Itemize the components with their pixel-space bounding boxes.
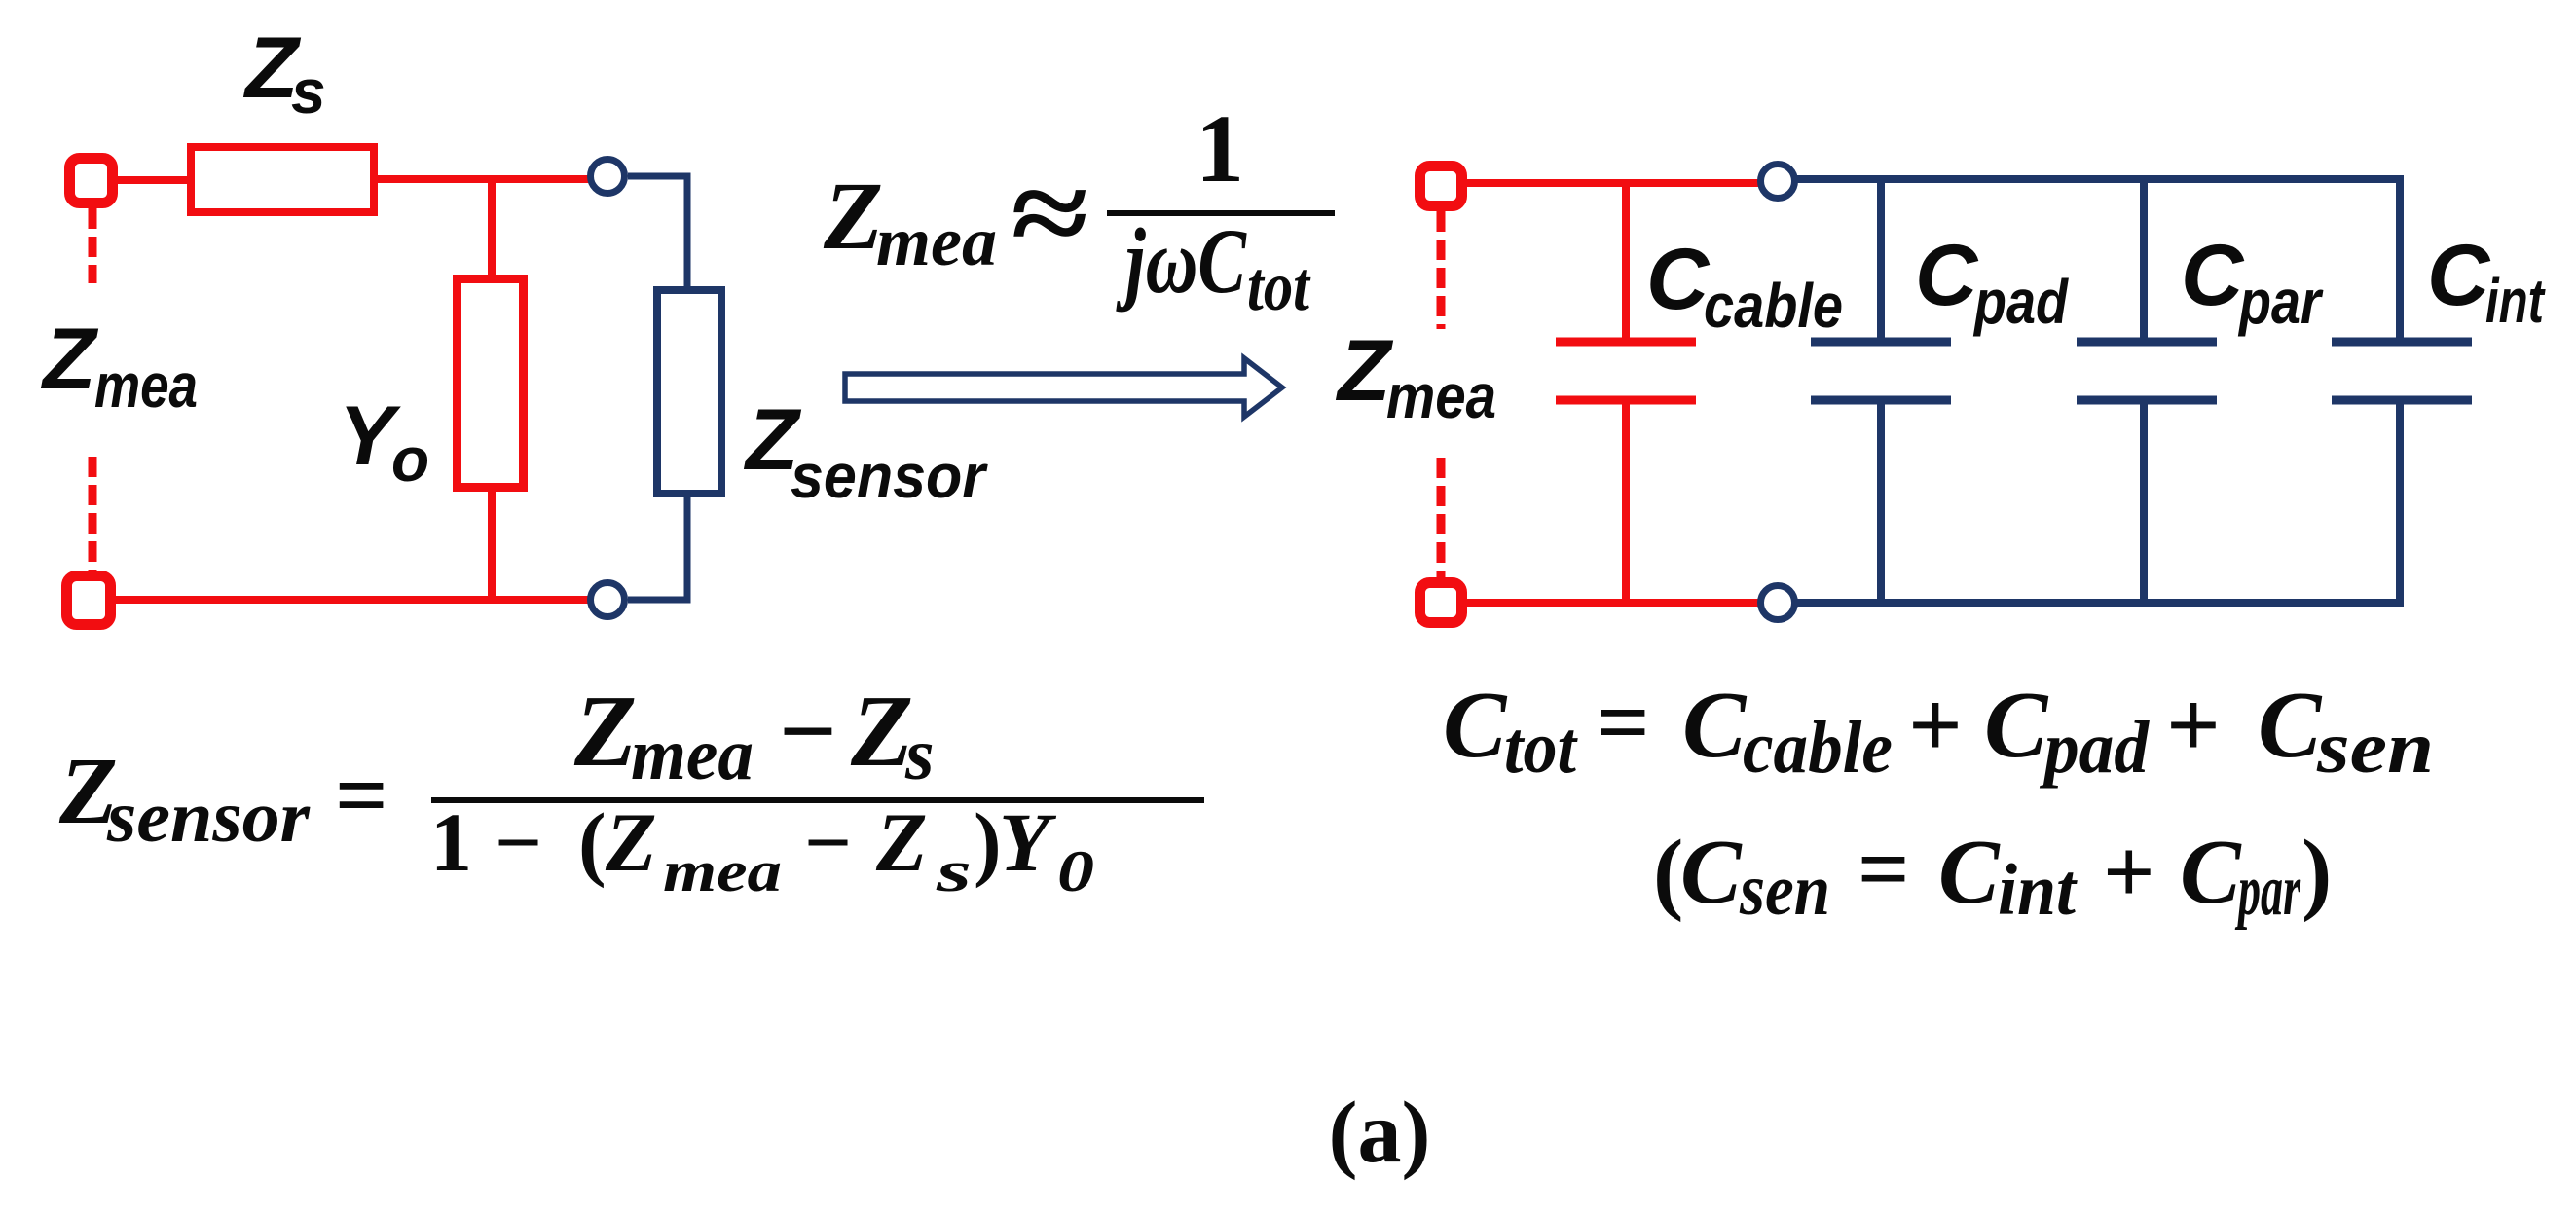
capacitor Ccable plates: [1556, 342, 1696, 400]
svg-text:≈: ≈: [1009, 148, 1086, 279]
dashed lead upper (Zmea port): [89, 208, 97, 283]
svg-text:−: −: [804, 795, 852, 889]
svg-text:(: (: [1653, 822, 1683, 923]
dashed lead lower right: [1437, 458, 1446, 577]
terminal square top-left: [70, 159, 113, 203]
svg-text:): ): [974, 795, 1002, 889]
svg-text:sensor: sensor: [106, 777, 311, 858]
svg-text:Z: Z: [850, 674, 913, 788]
svg-text:pad: pad: [2039, 707, 2150, 789]
svg-text:s: s: [291, 56, 326, 127]
svg-text:Z: Z: [875, 795, 928, 889]
svg-text:0: 0: [1057, 839, 1094, 903]
svg-text:par: par: [2237, 267, 2323, 337]
svg-text:C: C: [1680, 822, 1743, 923]
branch wire Cpad bottom: [1877, 400, 1885, 603]
svg-text:Z: Z: [573, 674, 637, 788]
label Cpar: [2181, 226, 2324, 337]
svg-text:sensor: sensor: [791, 441, 988, 511]
svg-text:C: C: [1682, 673, 1748, 778]
branch wire Cpad top: [1877, 179, 1885, 342]
wire Zsensor bottom to node B: [628, 494, 687, 600]
svg-text:tot: tot: [1247, 247, 1311, 325]
arrow (transformation): [845, 358, 1282, 417]
svg-text:=: =: [335, 743, 388, 847]
label Zsensor: [743, 390, 988, 511]
svg-text:sen: sen: [2316, 707, 2434, 789]
svg-text:jωC: jωC: [1116, 209, 1247, 313]
terminal square top-right circuit: [1420, 166, 1462, 206]
node C top circle right: [1761, 165, 1795, 199]
wire Yo to bottom wire: [488, 485, 496, 600]
svg-text:mea: mea: [876, 203, 997, 280]
label Zs: [242, 18, 326, 127]
resistor Yo: [458, 279, 524, 488]
svg-text:C: C: [2180, 822, 2242, 923]
svg-text:par: par: [2234, 850, 2300, 931]
capacitor Cpar plates: [2077, 342, 2217, 400]
svg-text:C: C: [2427, 226, 2491, 323]
svg-text:mea: mea: [631, 714, 754, 795]
branch wire Cpar bottom: [2140, 400, 2148, 603]
svg-text:C: C: [1984, 673, 2049, 778]
wire resistor Zs to top node: [374, 175, 589, 183]
svg-text:mea: mea: [94, 350, 198, 421]
fraction bar: [431, 797, 1204, 803]
svg-text:1: 1: [1196, 94, 1244, 203]
wire top-left to resistor Zs: [118, 176, 193, 184]
branch wire Cint top: [2396, 179, 2404, 342]
svg-text:C: C: [2258, 673, 2323, 778]
terminal square bottom-right circuit: [1420, 583, 1462, 623]
capacitor Cint plates: [2332, 342, 2472, 400]
svg-text:C: C: [2181, 226, 2245, 323]
svg-text:C: C: [1938, 822, 2001, 923]
svg-text:Z: Z: [1335, 321, 1394, 419]
svg-text:C: C: [1443, 673, 1508, 778]
svg-text:mea: mea: [1386, 361, 1496, 431]
svg-text:(a): (a): [1329, 1085, 1431, 1181]
bottom red wire right circuit: [1467, 599, 1758, 607]
svg-text:Z: Z: [823, 162, 883, 270]
branch wire Cpar top: [2140, 179, 2148, 342]
label Ccable: [1646, 230, 1843, 341]
wire node A to Zsensor top: [628, 176, 687, 290]
bottom wire left: [116, 596, 589, 604]
svg-text:1: 1: [430, 795, 472, 889]
svg-text:int: int: [1998, 850, 2078, 931]
svg-text:+: +: [1908, 673, 1963, 778]
terminal square bottom-left: [67, 576, 111, 625]
svg-text:−: −: [495, 795, 542, 889]
svg-text:cable: cable: [1704, 271, 1843, 341]
svg-text:sen: sen: [1739, 850, 1830, 931]
resistor Zs: [191, 147, 374, 212]
svg-text:C: C: [1915, 226, 1979, 323]
dashed lead upper right: [1437, 211, 1446, 329]
fraction bar: [1107, 210, 1335, 216]
label Cpad: [1915, 226, 2070, 337]
svg-text:s: s: [904, 714, 935, 795]
svg-text:+: +: [2166, 673, 2221, 778]
svg-text:C: C: [1646, 230, 1711, 327]
svg-text:pad: pad: [1972, 267, 2069, 337]
label Cint: [2427, 226, 2546, 336]
svg-text:mea: mea: [663, 839, 782, 903]
node B bottom circle: [591, 583, 625, 617]
svg-text:(: (: [578, 795, 607, 889]
top red wire: [1467, 179, 1758, 187]
capacitor Cpad plates: [1811, 342, 1951, 400]
svg-text:): ): [2301, 822, 2332, 923]
node D bottom circle right: [1761, 586, 1795, 620]
wire junction down to Yo: [488, 179, 496, 282]
label Yo: [339, 389, 429, 495]
svg-text:=: =: [1597, 670, 1650, 774]
svg-text:o: o: [391, 424, 429, 495]
branch wire Cint bottom: [2396, 400, 2404, 603]
svg-text:cable: cable: [1743, 707, 1893, 789]
resistor Zsensor: [657, 290, 721, 494]
dashed lead lower (Zmea port): [89, 457, 97, 572]
svg-text:Y: Y: [999, 795, 1057, 889]
svg-text:s: s: [935, 839, 972, 903]
navy bottom bus wire: [1797, 599, 2404, 607]
label Zmea left: [40, 310, 198, 421]
svg-text:tot: tot: [1504, 707, 1579, 789]
svg-text:Z: Z: [40, 310, 99, 407]
svg-text:int: int: [2485, 266, 2546, 336]
red wire below Ccable: [1622, 400, 1630, 603]
svg-text:=: =: [1858, 819, 1910, 920]
label Zmea right: [1335, 321, 1496, 431]
node A top circle: [591, 160, 625, 194]
svg-text:+: +: [2103, 822, 2155, 923]
svg-text:−: −: [779, 674, 837, 788]
svg-text:Z: Z: [605, 795, 657, 889]
red branch down to Ccable: [1622, 183, 1630, 342]
navy top bus wire: [1797, 175, 2404, 183]
